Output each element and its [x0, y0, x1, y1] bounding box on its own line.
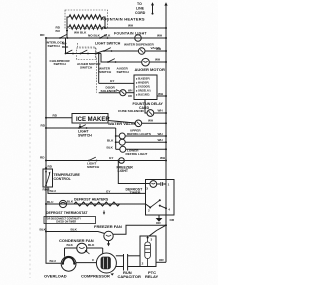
wire: valve row to lamp and bus	[112, 50, 139, 52]
svg-text:OR: OR	[159, 258, 164, 262]
wire: dispenser switch row	[66, 53, 102, 55]
wire: temp control output row to defrost timer	[48, 187, 146, 193]
PTC element	[145, 236, 151, 266]
svg-text:WH: WH	[157, 34, 163, 38]
lamp: upper refrig light 2	[116, 139, 166, 145]
svg-text:BLU: BLU	[50, 259, 57, 263]
wire: upper refrig lights row	[46, 127, 116, 129]
svg-text:DEFROST THERMOSTAT: DEFROST THERMOSTAT	[46, 211, 88, 215]
svg-text:RD: RD	[41, 123, 46, 127]
wire: left supply bus (RD)	[46, 38, 61, 263]
wire: lamp feeder vertical	[115, 128, 117, 149]
switch: timer cam contacts	[149, 199, 167, 209]
svg-text:LIGHT: LIGHT	[118, 169, 129, 173]
junction dots on left bus	[45, 37, 47, 233]
label LOWER REFRIG LIGHT	[126, 148, 148, 155]
wire: freezer fan row from left bus	[46, 232, 104, 234]
lamp: fountain light	[135, 35, 142, 42]
wire: heater right tie to right bus (WH)	[103, 17, 166, 28]
wire: door solenoid row	[99, 92, 120, 94]
svg-text:SWITCH: SWITCH	[48, 44, 61, 48]
linkage: dashed switch cluster outline	[77, 48, 97, 60]
svg-text:FREEZER FAN: FREEZER FAN	[94, 224, 122, 229]
lamp: freezer light	[119, 158, 125, 164]
solenoid: cube solenoid	[147, 110, 154, 117]
ground: under defrost timer	[156, 215, 163, 222]
svg-text:OVERLOAD: OVERLOAD	[44, 274, 67, 279]
svg-text:1: 1	[168, 182, 170, 186]
relay: PTC relay box	[140, 236, 156, 267]
box: defrost timer	[146, 180, 175, 216]
svg-text:OR: OR	[128, 94, 132, 98]
wire: line-cord arrow stub	[151, 2, 154, 14]
label LIGHT SWITCH	[78, 130, 92, 138]
svg-text:REFRIG LIGHTS: REFRIG LIGHTS	[127, 132, 151, 136]
svg-text:CUBE SOLENOID: CUBE SOLENOID	[118, 109, 145, 113]
solenoid: water dispenser valve	[138, 48, 145, 55]
svg-text:CHECK ON TIMER: CHECK ON TIMER	[56, 222, 76, 224]
motor: freezer fan	[104, 231, 113, 240]
svg-text:WH: WH	[128, 89, 132, 93]
svg-text:TIMER: TIMER	[130, 191, 141, 195]
svg-text:BLK: BLK	[88, 243, 95, 247]
labels BLK on lamp stubs	[107, 138, 115, 149]
label dispenser switch (water)	[99, 66, 112, 73]
label AUGER MOTOR SWITCH	[77, 62, 101, 69]
svg-text:WH: WH	[158, 138, 164, 142]
svg-text:4: 4	[168, 208, 170, 212]
label PTC RELAY	[145, 270, 159, 279]
box: ICE MAKER	[72, 114, 108, 124]
svg-text:■ WH(DISP): ■ WH(DISP)	[136, 81, 149, 84]
labels BLK and WH around fountain lamp	[104, 34, 163, 38]
wire: cube solenoid to right bus	[154, 112, 166, 114]
svg-text:SWITCH: SWITCH	[54, 62, 67, 66]
svg-text:TO: TO	[137, 2, 142, 6]
wire: freezer fan to right bus	[113, 225, 166, 234]
wire: right bus bottom into PTC	[156, 261, 166, 263]
fountain heaters enclosure (dashed)	[65, 10, 108, 29]
svg-text:RD: RD	[48, 164, 53, 168]
wire: door solenoid to card	[126, 92, 134, 94]
svg-text:3: 3	[146, 186, 148, 190]
svg-text:BLK: BLK	[107, 138, 114, 142]
svg-text:ICE MAKER: ICE MAKER	[76, 117, 110, 123]
svg-text:OR: OR	[170, 218, 175, 222]
wire: defrost heater row	[46, 203, 146, 205]
svg-text:SWITCH: SWITCH	[87, 165, 100, 169]
solenoid: water valve	[135, 120, 142, 127]
label LIGHT SWITCH (freezer)	[87, 162, 100, 169]
svg-text:NO: NO	[88, 34, 93, 38]
switch: auger switch on motor row	[107, 59, 116, 63]
svg-text:WH: WH	[158, 132, 164, 136]
svg-text:WH: WH	[156, 47, 162, 51]
svg-text:FOUNTAIN LIGHT: FOUNTAIN LIGHT	[114, 31, 147, 35]
resistor: fountain heater 1 (zigzag)	[69, 15, 103, 19]
switch: dispenser water switch	[103, 48, 112, 52]
wire: valve to right bus	[145, 50, 166, 52]
wire: water valve to right bus	[142, 122, 166, 124]
svg-text:2: 2	[142, 261, 144, 265]
svg-text:SWITCH: SWITCH	[80, 65, 93, 69]
lamp: upper refrig light 1	[116, 133, 166, 139]
wire: to water dispenser valve	[96, 51, 113, 54]
svg-text:3: 3	[151, 238, 153, 242]
lamp: lower refrig light	[116, 146, 166, 152]
switch: temperature control contacts	[45, 171, 51, 186]
svg-text:BLK: BLK	[40, 227, 47, 231]
svg-text:SWITCH: SWITCH	[117, 70, 130, 74]
wire: overload to compressor	[76, 262, 97, 264]
svg-text:2: 2	[148, 208, 150, 212]
svg-text:AUGER MOTOR: AUGER MOTOR	[135, 67, 165, 72]
svg-text:CAPACITOR: CAPACITOR	[118, 274, 142, 279]
wire: ice maker to water valve	[108, 121, 135, 124]
svg-text:WH: WH	[148, 119, 154, 123]
svg-text:■ BLK(DISP): ■ BLK(DISP)	[136, 77, 150, 80]
pin labels inside delay card	[136, 77, 151, 96]
svg-text:RELAY: RELAY	[145, 274, 159, 279]
thermostat: defrost thermostat	[59, 200, 66, 207]
resistor: fountain heater 2 (zigzag)	[69, 25, 103, 29]
svg-text:CONTROL: CONTROL	[54, 177, 72, 181]
wire: freezer light row	[46, 160, 166, 162]
motor: condenser fan	[77, 243, 87, 253]
pointer arrow under ice maker to light switch	[79, 124, 81, 128]
wire: drop to auger motor row	[101, 54, 142, 63]
wire: drop from light row to dispenser switch row	[65, 38, 67, 54]
svg-text:WH: WH	[155, 58, 161, 62]
motor: auger motor	[142, 58, 150, 66]
ground arrow below freezer fan	[107, 241, 110, 247]
label FOUNTAIN DELAY CARD	[133, 102, 164, 110]
label WATER DISPENSER VALVE	[124, 42, 160, 50]
svg-text:LIGHT SWITCH: LIGHT SWITCH	[95, 42, 121, 46]
svg-text:LINE: LINE	[136, 7, 145, 11]
label DOOR SOLENOID with pointer	[101, 86, 120, 93]
label UPPER REFRIG LIGHTS	[127, 129, 151, 136]
svg-text:WH: WH	[158, 92, 164, 96]
labels WH/BLK NO/BLK on light row	[74, 30, 101, 37]
switch: fountain light switch	[99, 34, 108, 38]
svg-text:SWITCH: SWITCH	[99, 70, 112, 74]
svg-text:WH: WH	[160, 156, 166, 160]
svg-text:BLK: BLK	[104, 34, 111, 38]
switch: refrig light switch 1	[78, 125, 87, 129]
wire: heater row into pin 2	[146, 204, 151, 207]
svg-text:BLU: BLU	[47, 200, 54, 204]
wire: compressor to run capacitor top	[116, 255, 140, 257]
labels BLK / BLK around condenser fan	[67, 243, 96, 247]
wire: compressor to run capacitor bottom	[116, 266, 140, 268]
labels RD/2 and BLU under temp control	[43, 188, 57, 194]
junction dots on right bus	[165, 27, 167, 226]
label FREEZER LIGHT	[117, 165, 134, 173]
svg-text:REFRIG LIGHT: REFRIG LIGHT	[126, 152, 148, 156]
labels RD BU near heater drop	[56, 26, 61, 34]
svg-text:FOR DISCONNECT CONTINUITY: FOR DISCONNECT CONTINUITY	[46, 219, 82, 221]
pointer arrow into condenser fan	[85, 250, 90, 254]
IC: fountain delay card box	[134, 75, 157, 100]
svg-text:WH: WH	[158, 109, 164, 113]
wire: card output to right bus	[157, 95, 166, 97]
pin 2 and 4 labels	[148, 208, 170, 213]
labels WH after lamps	[158, 132, 164, 142]
label CHILDPROOF SWITCH	[50, 59, 71, 66]
svg-text:DEFROST HEATERS: DEFROST HEATERS	[74, 198, 109, 202]
svg-text:■ GY(DOOR): ■ GY(DOOR)	[136, 85, 150, 88]
svg-text:FOUNTAIN HEATERS: FOUNTAIN HEATERS	[101, 16, 145, 21]
label DEFROST TIMER	[126, 187, 144, 195]
overload: overload protector	[61, 256, 76, 271]
svg-text:BLK: BLK	[94, 34, 101, 38]
motor: defrost timer motor	[150, 181, 157, 188]
label dispenser switch (auger)	[117, 66, 130, 73]
wire: ice maker feed from left bus	[46, 117, 72, 119]
node: TO LINE CORD label	[135, 2, 146, 15]
compressor: motor circle	[96, 253, 116, 273]
scan artifact faint left line	[29, 52, 31, 278]
wire: timer motor feed from freezer row	[117, 160, 149, 184]
svg-text:WATER VALVE: WATER VALVE	[108, 121, 136, 126]
svg-text:CORD: CORD	[135, 11, 146, 15]
svg-text:WH: WH	[128, 24, 134, 28]
svg-text:■ OR(DELAY): ■ OR(DELAY)	[136, 89, 151, 92]
wire: card to cube solenoid	[145, 100, 147, 114]
linkage: dashed mechanical links	[78, 43, 96, 58]
svg-text:BLK: BLK	[67, 243, 74, 247]
label INTERLOCK SWITCH	[46, 41, 65, 48]
capacitor: run capacitor plates	[124, 254, 128, 271]
svg-text:SOLENOID: SOLENOID	[101, 89, 118, 93]
wire: GY feed to delay card	[98, 53, 134, 84]
svg-text:BLU: BLU	[50, 189, 57, 193]
svg-text:BLK: BLK	[71, 227, 78, 231]
wire: auger motor to right bus	[149, 61, 166, 63]
linkage: dashed link down to door solenoid feed	[95, 58, 97, 93]
labels RD / BLK near interlock	[62, 42, 69, 50]
resistor: defrost heater element (zigzag)	[74, 202, 120, 206]
wire: right supply bus (WH) with arrow to line cord	[164, 2, 167, 262]
label TEMPERATURE CONTROL	[54, 173, 81, 181]
wire: fountain light row	[46, 37, 166, 39]
svg-text:SWITCH: SWITCH	[78, 133, 92, 137]
wire: diagonal from bus to PTC pin 3	[149, 225, 166, 236]
switch: childproof switch	[65, 50, 74, 54]
svg-text:RD: RD	[40, 155, 45, 159]
label DEFROST THERMOSTAT with arrow	[46, 211, 105, 215]
switch: interlock switch on light row	[59, 34, 68, 38]
svg-text:BU: BU	[56, 29, 61, 33]
switch: auger motor switch	[80, 50, 97, 54]
switch: freezer light switch	[88, 157, 97, 161]
wire: heater left tie down to light row	[67, 17, 69, 38]
svg-text:RD: RD	[53, 113, 58, 117]
note box: continuity note	[44, 217, 96, 224]
svg-text:BLK: BLK	[107, 145, 114, 149]
svg-text:COMPRESSOR: COMPRESSOR	[81, 273, 110, 278]
svg-text:BLK: BLK	[67, 200, 74, 204]
solenoid: door solenoid	[120, 90, 126, 96]
svg-text:BLK: BLK	[80, 30, 87, 34]
svg-text:OR: OR	[156, 221, 161, 225]
labels WH / OR at card left pins	[128, 89, 132, 99]
svg-text:■ BU(CUBE): ■ BU(CUBE)	[136, 93, 150, 96]
label COMPRESSOR with pointer	[81, 273, 114, 278]
wire: condenser fan row	[65, 248, 103, 257]
box: temperature control	[43, 169, 53, 187]
svg-text:RD: RD	[40, 33, 45, 37]
timer motor contact marks and pin 1	[157, 182, 170, 186]
label RUN CAPACITOR	[118, 270, 142, 279]
